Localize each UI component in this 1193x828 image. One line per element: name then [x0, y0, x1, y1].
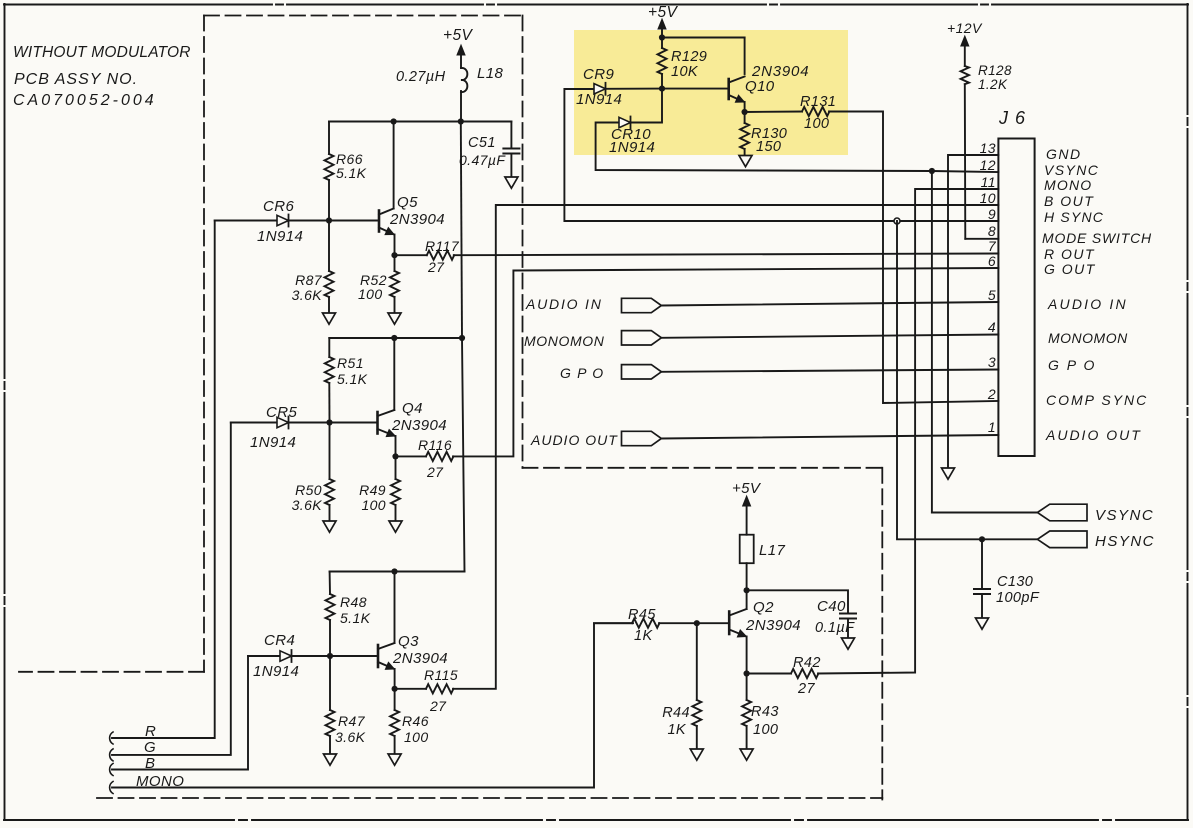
svg-text:CR9: CR9	[583, 66, 614, 83]
svg-text:R44: R44	[662, 705, 690, 721]
svg-text:5.1K: 5.1K	[337, 371, 368, 387]
svg-text:27: 27	[427, 259, 445, 275]
svg-text:G OUT: G OUT	[1044, 261, 1096, 277]
svg-text:2N3904: 2N3904	[745, 617, 801, 634]
svg-text:R49: R49	[359, 482, 386, 498]
svg-text:R115: R115	[424, 667, 458, 683]
svg-text:1K: 1K	[634, 628, 653, 644]
svg-text:HSYNC: HSYNC	[1095, 533, 1155, 550]
svg-text:R46: R46	[402, 713, 429, 729]
svg-text:VSYNC: VSYNC	[1044, 162, 1099, 178]
svg-text:+12V: +12V	[947, 20, 983, 36]
svg-text:1K: 1K	[667, 722, 686, 738]
svg-text:11: 11	[981, 174, 996, 190]
svg-text:R87: R87	[295, 272, 323, 288]
svg-text:3.6K: 3.6K	[292, 287, 323, 303]
svg-text:+5V: +5V	[732, 480, 762, 497]
svg-text:R50: R50	[295, 482, 322, 498]
svg-text:COMP SYNC: COMP SYNC	[1046, 392, 1148, 408]
svg-text:R117: R117	[425, 238, 460, 254]
svg-text:AUDIO OUT: AUDIO OUT	[1045, 427, 1142, 443]
svg-text:1N914: 1N914	[253, 663, 299, 680]
svg-text:8: 8	[988, 223, 996, 239]
svg-text:WITHOUT MODULATOR: WITHOUT MODULATOR	[13, 44, 191, 61]
svg-text:CR5: CR5	[266, 404, 297, 421]
svg-text:150: 150	[756, 139, 781, 155]
svg-text:100pF: 100pF	[996, 590, 1040, 606]
svg-text:100: 100	[753, 722, 778, 738]
svg-text:MONO: MONO	[136, 773, 184, 790]
svg-text:MONOMON: MONOMON	[1048, 330, 1128, 346]
svg-text:R128: R128	[978, 63, 1012, 78]
svg-text:2N3904: 2N3904	[392, 650, 448, 667]
svg-text:CR6: CR6	[263, 198, 294, 215]
svg-text:5.1K: 5.1K	[340, 610, 371, 626]
svg-text:1.2K: 1.2K	[978, 77, 1008, 92]
svg-text:R45: R45	[628, 607, 656, 623]
svg-text:L18: L18	[477, 65, 503, 82]
svg-text:1N914: 1N914	[257, 228, 303, 245]
svg-text:L17: L17	[759, 542, 785, 559]
svg-text:R48: R48	[340, 594, 367, 610]
svg-text:100: 100	[358, 286, 383, 302]
svg-text:10K: 10K	[671, 64, 699, 80]
svg-text:MODE SWITCH: MODE SWITCH	[1042, 230, 1152, 246]
svg-text:12: 12	[980, 157, 996, 173]
svg-text:R129: R129	[671, 49, 707, 65]
svg-text:Q5: Q5	[397, 194, 418, 211]
svg-text:13: 13	[980, 140, 996, 156]
svg-text:2: 2	[987, 386, 996, 402]
svg-text:R47: R47	[338, 713, 366, 729]
svg-text:R131: R131	[800, 94, 836, 110]
svg-text:J 6: J 6	[998, 108, 1026, 128]
svg-text:AUDIO OUT: AUDIO OUT	[530, 432, 618, 448]
svg-text:100: 100	[404, 729, 429, 745]
svg-text:R42: R42	[793, 655, 821, 671]
svg-text:0.1µF: 0.1µF	[815, 620, 855, 636]
svg-text:Q4: Q4	[402, 400, 423, 417]
svg-text:1N914: 1N914	[250, 434, 296, 451]
svg-text:10: 10	[980, 190, 996, 206]
svg-text:1: 1	[988, 419, 996, 435]
svg-text:Q10: Q10	[745, 78, 775, 95]
svg-text:AUDIO IN: AUDIO IN	[1047, 296, 1128, 312]
svg-text:GND: GND	[1046, 146, 1082, 162]
svg-text:G: G	[144, 739, 156, 756]
svg-text:3.6K: 3.6K	[335, 729, 366, 745]
svg-text:C130: C130	[997, 574, 1033, 590]
svg-text:Q3: Q3	[398, 633, 419, 650]
svg-text:7: 7	[988, 238, 997, 254]
svg-text:1N914: 1N914	[609, 139, 655, 156]
svg-text:100: 100	[361, 497, 386, 513]
svg-text:R51: R51	[337, 355, 364, 371]
svg-text:C40: C40	[817, 598, 846, 615]
svg-text:R116: R116	[418, 437, 452, 453]
svg-text:AUDIO IN: AUDIO IN	[525, 296, 603, 312]
svg-text:27: 27	[429, 698, 447, 714]
svg-text:B OUT: B OUT	[1044, 193, 1094, 209]
svg-text:6: 6	[988, 253, 996, 269]
svg-text:G P O: G P O	[560, 365, 604, 381]
svg-text:2N3904: 2N3904	[391, 417, 447, 434]
svg-text:CA070052-004: CA070052-004	[13, 92, 157, 109]
svg-text:MONO: MONO	[1044, 177, 1092, 193]
svg-text:C51: C51	[468, 135, 496, 151]
svg-text:3: 3	[988, 354, 996, 370]
svg-text:27: 27	[797, 681, 815, 697]
svg-text:VSYNC: VSYNC	[1095, 507, 1154, 524]
svg-text:2N3904: 2N3904	[389, 211, 445, 228]
svg-text:B: B	[145, 755, 155, 772]
svg-text:H SYNC: H SYNC	[1044, 209, 1104, 225]
svg-text:Q2: Q2	[753, 599, 774, 616]
svg-text:CR4: CR4	[264, 632, 295, 649]
svg-text:PCB ASSY NO.: PCB ASSY NO.	[14, 71, 138, 88]
svg-text:4: 4	[988, 319, 996, 335]
svg-text:R OUT: R OUT	[1044, 246, 1095, 262]
svg-text:R43: R43	[751, 704, 779, 720]
svg-text:MONOMON: MONOMON	[524, 333, 605, 349]
svg-text:9: 9	[988, 206, 996, 222]
svg-text:+5V: +5V	[648, 4, 678, 21]
svg-text:+5V: +5V	[443, 27, 473, 44]
svg-text:3.6K: 3.6K	[292, 497, 323, 513]
svg-text:100: 100	[804, 116, 829, 132]
svg-text:5: 5	[988, 287, 996, 303]
svg-text:0.27µH: 0.27µH	[396, 69, 446, 85]
svg-text:5.1K: 5.1K	[336, 165, 367, 181]
svg-text:R: R	[145, 723, 156, 740]
svg-text:0.47µF: 0.47µF	[459, 152, 506, 168]
svg-text:1N914: 1N914	[576, 91, 622, 108]
svg-text:G P O: G P O	[1048, 357, 1096, 373]
svg-text:27: 27	[426, 464, 444, 480]
